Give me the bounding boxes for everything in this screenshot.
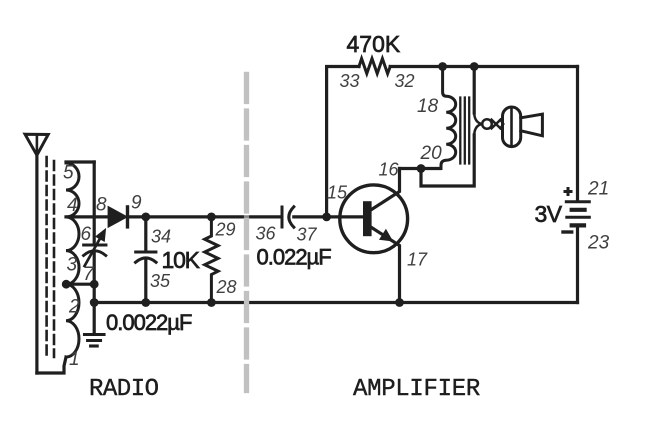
wire tap 3 — [66, 283, 94, 286]
svg-text:0.0022µF: 0.0022µF — [106, 310, 192, 335]
section divider dashed line — [244, 75, 249, 391]
battery plus sign — [564, 187, 573, 196]
battery plate long 1 — [566, 200, 589, 203]
svg-text:9: 9 — [131, 193, 142, 214]
svg-text:8: 8 — [96, 195, 107, 216]
node 8 column wire (coil top / diode / varcap) — [93, 162, 96, 244]
battery plate short 1 — [572, 208, 585, 212]
transformer primary coil 18-20 — [441, 67, 456, 169]
svg-text:35: 35 — [150, 271, 171, 291]
svg-text:3: 3 — [67, 255, 78, 276]
svg-text:37: 37 — [297, 225, 318, 245]
svg-text:32: 32 — [395, 71, 415, 91]
earphone capsule — [503, 107, 521, 147]
svg-text:20: 20 — [420, 143, 443, 164]
svg-text:6: 6 — [81, 224, 92, 245]
wire node 15 up to 470K loop — [327, 67, 359, 217]
bottom rail — [94, 301, 577, 304]
transistor Q1 circle — [340, 185, 408, 253]
transistor collector lead — [372, 169, 400, 210]
capacitor C34/35 0.0022uF lead top — [144, 217, 147, 251]
svg-text:2: 2 — [68, 297, 80, 318]
svg-text:36: 36 — [256, 224, 277, 244]
transistor emitter arrow — [380, 230, 393, 241]
capacitor C34/35 lead bottom — [144, 258, 147, 302]
resistor 10K (29-28) — [205, 217, 218, 303]
wire coil bottom to mast — [37, 357, 66, 373]
svg-text:15: 15 — [327, 183, 348, 203]
svg-text:17: 17 — [407, 250, 428, 270]
svg-text:21: 21 — [587, 179, 609, 200]
capacitor C36/37 0.022uF flat plate — [281, 207, 284, 227]
coil core dashed line right — [53, 161, 56, 357]
svg-text:1: 1 — [69, 349, 80, 370]
capacitor C34/35 flat plate — [136, 251, 156, 254]
battery plate long 2 — [567, 216, 590, 219]
transformer secondary loop wire — [421, 135, 474, 186]
svg-text:23: 23 — [587, 233, 610, 254]
svg-text:4: 4 — [67, 195, 78, 216]
svg-text:AMPLIFIER: AMPLIFIER — [353, 376, 480, 403]
earphone twisted leads — [474, 113, 503, 135]
svg-text:7: 7 — [83, 264, 95, 285]
svg-text:3V: 3V — [535, 201, 563, 227]
variable capacitor C6 curved plate — [84, 251, 106, 256]
inductor L1 radio coil (sections 5-4, 3, 2-1) — [66, 163, 79, 357]
capacitor C36/37 curved plate — [289, 207, 294, 227]
svg-text:5: 5 — [63, 163, 74, 184]
wire varcap bottom to ground — [93, 252, 96, 335]
transformer core lines — [460, 98, 469, 164]
svg-text:16: 16 — [379, 160, 400, 180]
junction node 9 — [141, 213, 150, 222]
svg-text:RADIO: RADIO — [89, 376, 159, 403]
battery minus sign — [563, 230, 572, 233]
transistor base bar — [363, 201, 372, 236]
junction node 7 rail — [90, 298, 99, 307]
top rail — [390, 65, 577, 68]
junction node 15 — [322, 213, 331, 222]
earphone capsule center line — [510, 108, 513, 147]
svg-text:470K: 470K — [347, 31, 401, 57]
variable capacitor C6 top plate — [84, 244, 106, 247]
junction node 35 rail — [141, 298, 150, 307]
antenna — [25, 134, 48, 155]
svg-text:18: 18 — [417, 96, 439, 117]
junction node 17 rail — [395, 298, 404, 307]
junction node top rail primary — [438, 62, 447, 71]
junction node 20 — [417, 164, 426, 173]
transistor emitter lead — [372, 228, 400, 303]
secondary wire from top rail — [473, 67, 476, 114]
junction node tap3 left — [62, 280, 71, 289]
battery wire bottom — [576, 228, 579, 303]
wire tap 4 to diode — [66, 215, 109, 218]
wire cap37 to node 15 / base — [294, 215, 364, 218]
wire diode to node 9 and on to resistor — [129, 215, 281, 218]
junction node tap3 right — [90, 280, 99, 289]
svg-text:28: 28 — [216, 277, 237, 297]
svg-text:34: 34 — [151, 227, 171, 247]
junction node top rail secondary — [470, 62, 479, 71]
variable capacitor arrow — [85, 229, 106, 266]
svg-text:10K: 10K — [162, 247, 201, 273]
antenna mast wire — [35, 155, 38, 373]
svg-text:33: 33 — [340, 71, 360, 91]
wire coil top to node-8 column — [66, 160, 94, 163]
svg-text:0.022µF: 0.022µF — [257, 245, 332, 270]
earphone cone — [521, 114, 543, 136]
coil core dashed line left — [45, 157, 48, 357]
wire collector to node 20 — [400, 167, 441, 170]
resistor 470K (33-32) — [359, 59, 390, 74]
capacitor C34/35 curved plate — [136, 258, 157, 262]
junction node 28 rail — [207, 298, 216, 307]
svg-text:29: 29 — [215, 220, 236, 240]
battery B1 wire top — [576, 67, 579, 201]
diode (8-9) — [109, 207, 128, 227]
battery plate short 2 — [572, 223, 584, 227]
junction node 29 top — [207, 213, 216, 222]
ground — [85, 335, 105, 347]
